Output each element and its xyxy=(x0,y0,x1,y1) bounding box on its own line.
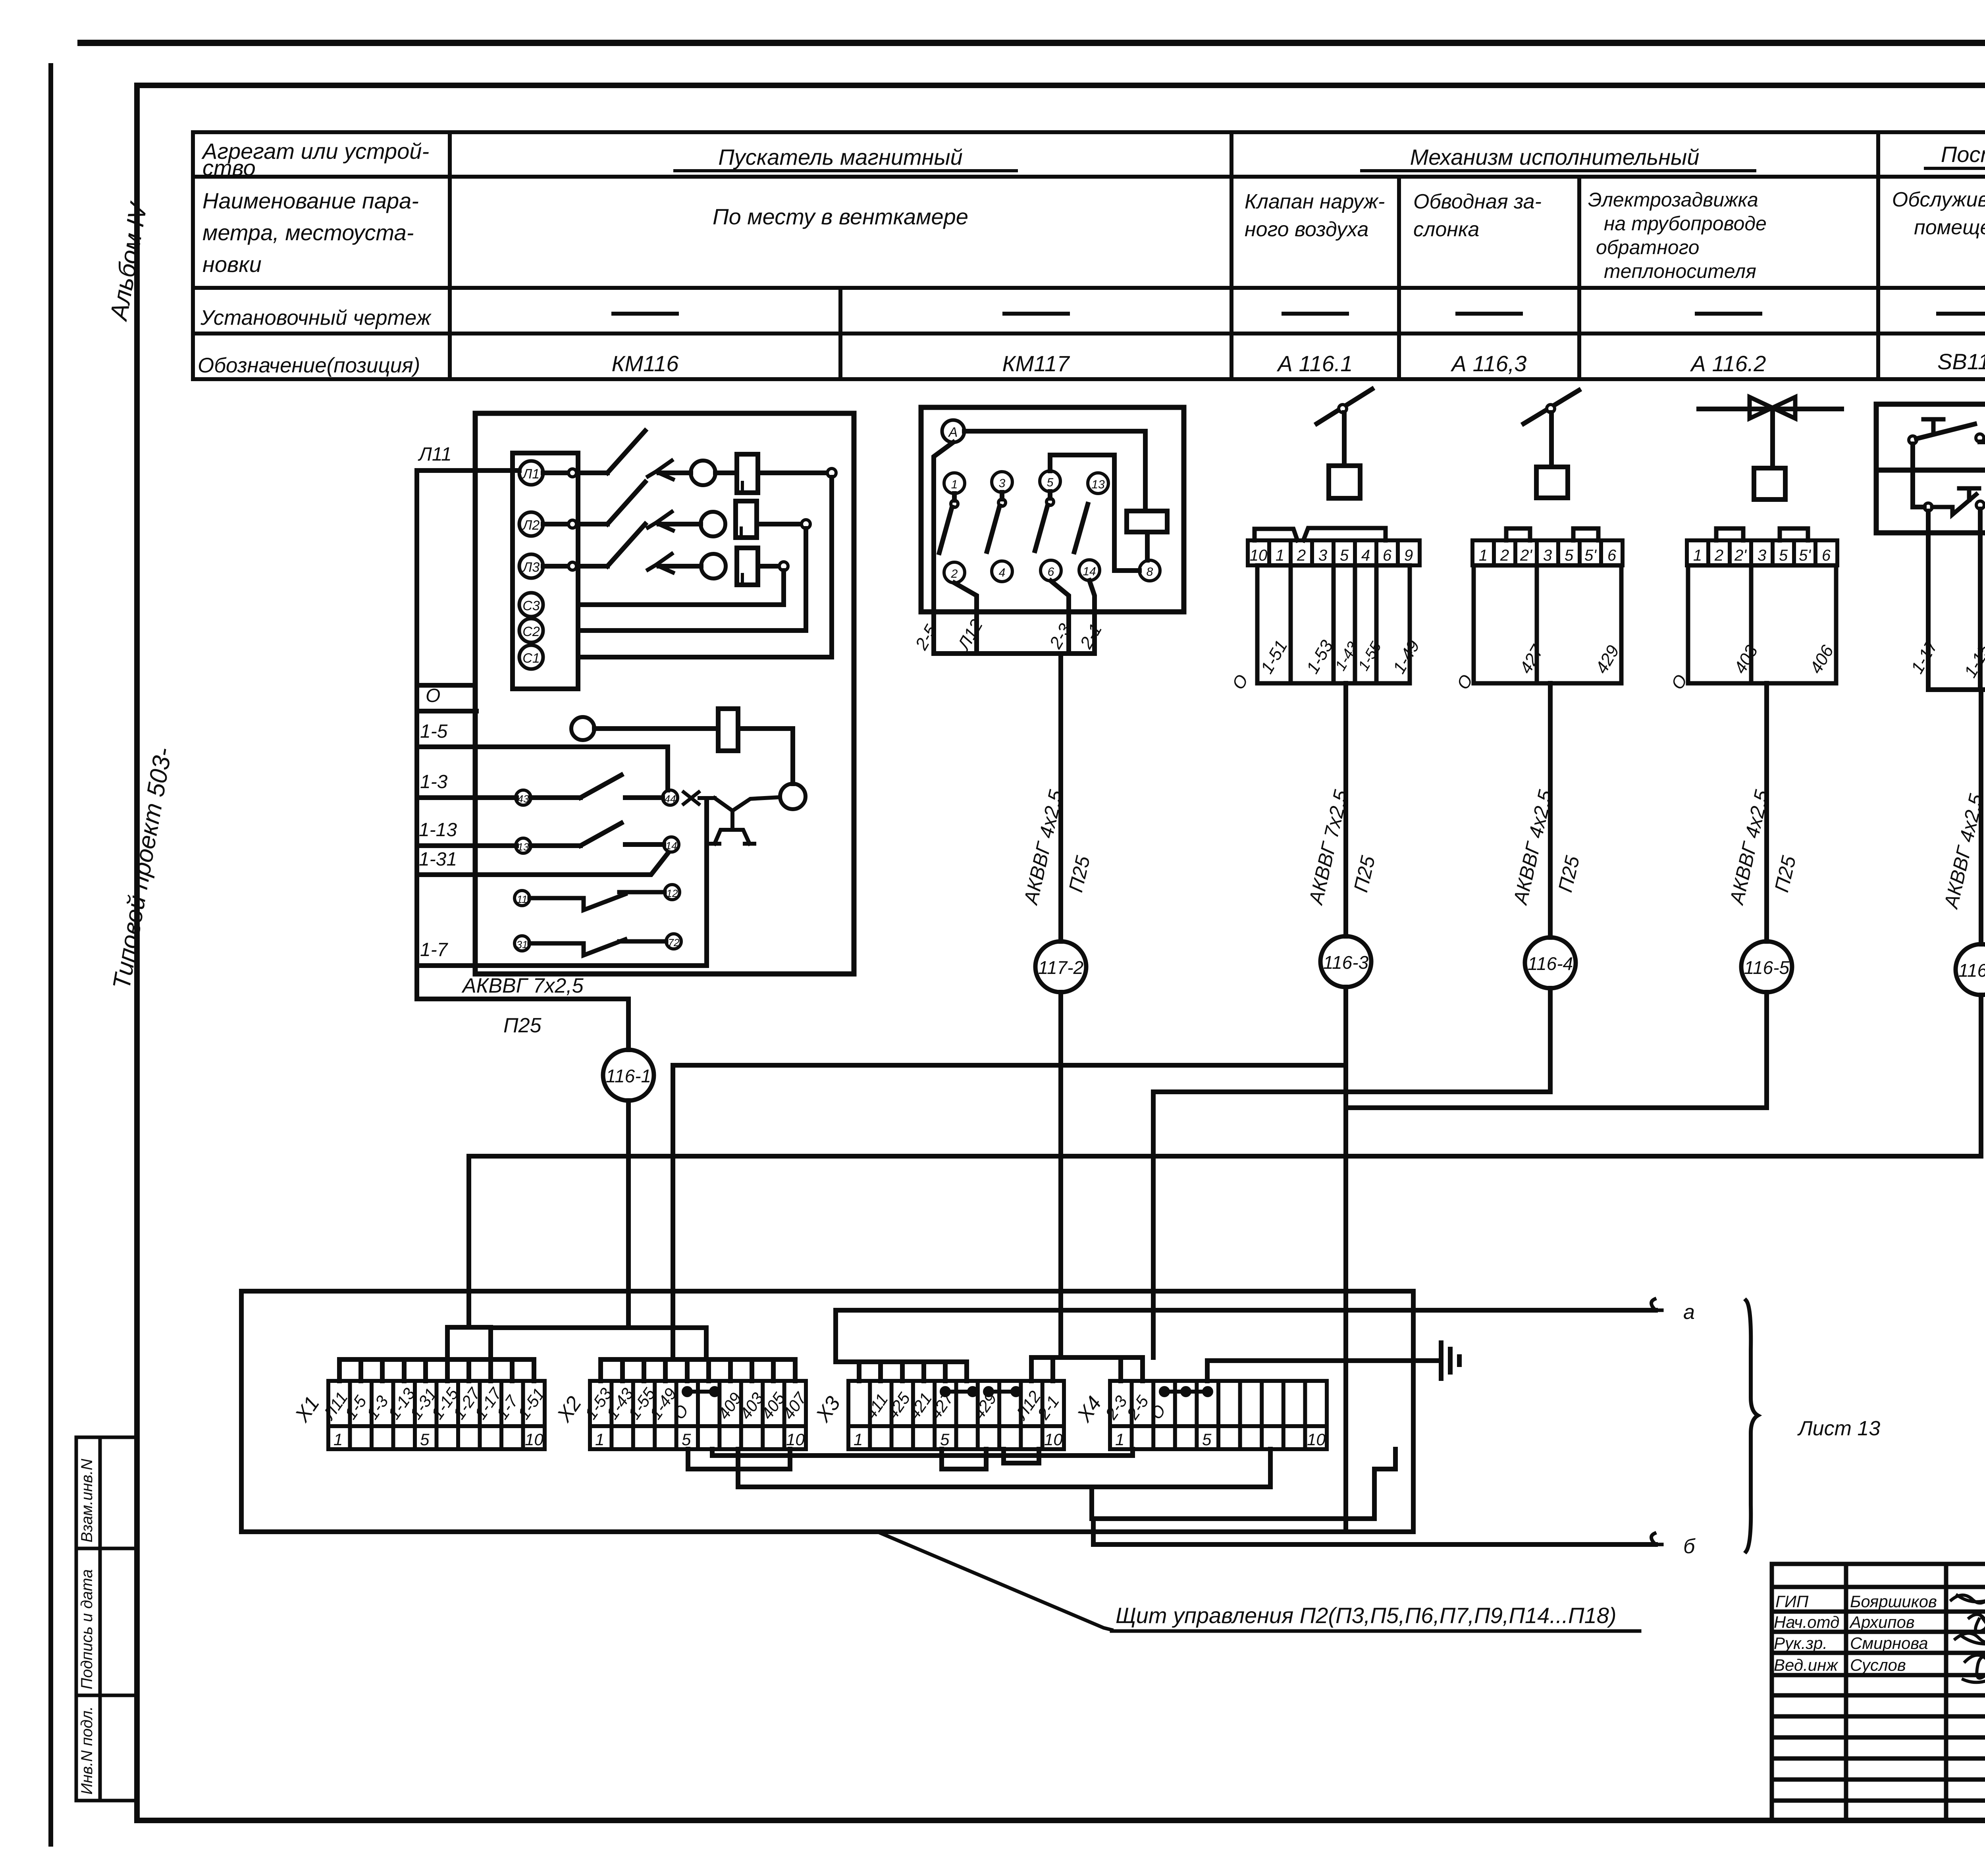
riser 116-1 down xyxy=(626,1101,631,1328)
svg-text:С2: С2 xyxy=(522,624,540,639)
riser 116-4 to bus xyxy=(1153,988,1550,1357)
svg-text:1-13: 1-13 xyxy=(419,819,457,841)
button 1 actuator xyxy=(1923,419,1943,431)
cable mark 117-2 xyxy=(1035,941,1086,992)
pole 3 coil circle xyxy=(701,554,726,578)
terminal 1 xyxy=(944,473,965,494)
svg-text:Наименование пара-: Наименование пара- xyxy=(202,188,419,213)
svg-text:4: 4 xyxy=(999,566,1006,579)
svg-text:С3: С3 xyxy=(522,598,540,613)
signature table xyxy=(1772,1564,1985,1820)
device table frame xyxy=(193,132,1985,379)
svg-text:3: 3 xyxy=(1543,547,1552,564)
svg-text:1-7: 1-7 xyxy=(420,939,449,960)
row3 dashes xyxy=(613,312,1985,316)
svg-text:14: 14 xyxy=(1083,565,1096,578)
left margin stamp: Inv.N podl box xyxy=(76,1695,137,1801)
svg-text:на трубопроводе: на трубопроводе xyxy=(1604,212,1767,235)
svg-text:6: 6 xyxy=(1048,565,1054,578)
A116.1 cable crimp brackets xyxy=(1255,528,1386,540)
svg-text:Электрозадвижка: Электрозадвижка xyxy=(1588,189,1758,211)
under-strip link X3 a xyxy=(942,1449,986,1469)
label cell divider xyxy=(417,683,475,688)
svg-text:1: 1 xyxy=(1276,547,1284,564)
svg-text:3: 3 xyxy=(1758,547,1766,564)
svg-text:14: 14 xyxy=(666,840,677,852)
A116.2 body box xyxy=(1688,565,1836,683)
riser 116-3 xyxy=(1343,683,1348,936)
svg-text:1: 1 xyxy=(951,478,958,491)
sheet top border line xyxy=(81,40,1985,46)
svg-text:6: 6 xyxy=(1822,547,1831,564)
KM116 wire-label column line xyxy=(414,470,419,966)
svg-text:5: 5 xyxy=(682,1430,691,1449)
terminal C1 xyxy=(519,645,543,669)
pole 3 fixed contact xyxy=(648,554,673,573)
svg-text:Л1: Л1 xyxy=(522,467,540,482)
wire 1-5 xyxy=(417,747,668,790)
svg-text:А 116,3: А 116,3 xyxy=(1451,351,1527,376)
valve A116.2 stem xyxy=(1770,409,1775,468)
svg-text:КМ116: КМ116 xyxy=(612,351,679,376)
svg-text:12: 12 xyxy=(667,887,678,899)
svg-text:72: 72 xyxy=(668,937,680,949)
cable mark 116-1 xyxy=(603,1050,654,1101)
riser 116-3 down xyxy=(1343,987,1348,1531)
KM117 coil xyxy=(1127,511,1167,532)
A116.2 terminal numbers row xyxy=(1687,540,1837,565)
wire 1-15 xyxy=(1978,509,1983,690)
cable mark 116-5 xyxy=(1741,941,1792,992)
KM116 coil xyxy=(718,709,738,751)
svg-text:помещение: помещение xyxy=(1914,216,1985,239)
signature scribbles xyxy=(1951,1595,1985,1603)
contact 5-6 blade xyxy=(1046,498,1054,505)
damper A116.3 stem xyxy=(1549,413,1554,467)
contact point 14 xyxy=(664,837,679,852)
x junction mark xyxy=(684,792,699,804)
row4 designations xyxy=(612,349,1985,376)
svg-text:А: А xyxy=(948,425,958,440)
riser 116-5 xyxy=(1764,683,1769,941)
under-strip link X2c5 to X2c10 xyxy=(688,1449,790,1469)
wire button1 left down xyxy=(1913,444,1924,507)
KM117 landing stubs xyxy=(1031,1357,1143,1381)
svg-text:5: 5 xyxy=(1047,476,1054,489)
svg-text:116-5: 116-5 xyxy=(1744,957,1790,978)
svg-text:2: 2 xyxy=(1297,547,1306,564)
svg-text:1: 1 xyxy=(1115,1430,1124,1449)
control cabinet outline xyxy=(241,1291,1413,1532)
terminal 4 xyxy=(992,561,1012,582)
wire pole2 to C2 xyxy=(578,528,806,630)
pole 2 output terminal xyxy=(802,520,810,528)
cable from KM116 xyxy=(417,966,628,1050)
actuator A116.1 xyxy=(1329,466,1360,498)
terminal C3 xyxy=(519,593,543,617)
svg-text:По месту в венткамере: По месту в венткамере xyxy=(713,204,968,229)
svg-text:Архипов: Архипов xyxy=(1849,1613,1915,1631)
terminal L3 xyxy=(519,554,543,578)
svg-text:1-5: 1-5 xyxy=(420,721,448,742)
wire 1-7 bottom rail xyxy=(417,963,707,968)
terminal 2 xyxy=(944,562,965,583)
svg-text:13: 13 xyxy=(1091,478,1105,491)
KM117 cable rail xyxy=(934,651,1095,656)
pole 1 output terminal xyxy=(827,469,836,477)
svg-text:1-31: 1-31 xyxy=(419,849,457,870)
svg-text:11: 11 xyxy=(517,893,528,905)
line a arrow xyxy=(1651,1299,1662,1310)
svg-text:10: 10 xyxy=(1250,547,1268,564)
A116.1 terminal numbers row xyxy=(1248,540,1420,565)
riser 116-4 xyxy=(1548,683,1553,937)
ground symbol xyxy=(1441,1343,1459,1379)
bridge wire 5 to 14 xyxy=(1050,455,1139,571)
terminal 13 xyxy=(1088,473,1108,494)
wire pole1 to C1 xyxy=(578,477,832,657)
aux contact 12 xyxy=(665,885,680,900)
line b arrow xyxy=(1651,1533,1662,1544)
svg-text:SВ116: SВ116 xyxy=(1937,349,1985,374)
outer left border line xyxy=(48,66,53,1844)
svg-text:Подпись и дата: Подпись и дата xyxy=(78,1569,96,1689)
wire 1-31 xyxy=(417,853,668,875)
signature names xyxy=(1774,1592,1937,1674)
under-strip link X3 b xyxy=(1004,1449,1039,1463)
terminal block X4 xyxy=(1110,1381,1327,1449)
contact point 43 xyxy=(516,790,531,805)
riser 116-6 to bus xyxy=(469,995,1981,1327)
aux contact 31-72 link xyxy=(530,939,666,955)
svg-text:1: 1 xyxy=(1479,547,1488,564)
thermal release symbol xyxy=(700,797,779,844)
terminal 14 xyxy=(1079,560,1100,580)
X1 cell labels xyxy=(319,1384,548,1449)
svg-text:Установочный чертеж: Установочный чертеж xyxy=(200,306,432,330)
contact point 13 xyxy=(516,838,531,853)
contact 13-14 blade xyxy=(1074,504,1088,552)
terminal L2 xyxy=(519,512,543,536)
svg-text:Рук.зр.: Рук.зр. xyxy=(1774,1634,1827,1652)
svg-text:9: 9 xyxy=(1404,547,1413,564)
brace to sheet 13 xyxy=(1746,1300,1758,1552)
svg-text:Суслов: Суслов xyxy=(1850,1656,1906,1674)
svg-text:Пост: Пост xyxy=(1941,142,1985,167)
svg-text:Л11: Л11 xyxy=(418,444,452,465)
svg-text:Щит управления П2(П3,П5,П6,П7: Щит управления П2(П3,П5,П6,П7,П9,П14...П… xyxy=(1116,1603,1617,1628)
callout leader line xyxy=(877,1532,1112,1630)
svg-text:2': 2' xyxy=(1734,547,1747,564)
terminal 3 xyxy=(992,472,1012,492)
actuator A116.2 xyxy=(1754,468,1785,499)
svg-text:ство: ство xyxy=(202,155,256,180)
svg-text:116-6: 116-6 xyxy=(1958,960,1985,981)
svg-text:Бояршиков: Бояршиков xyxy=(1850,1592,1937,1611)
contact 3-4 blade xyxy=(998,499,1006,506)
wire 1-3 xyxy=(417,795,516,800)
A116.3 body box xyxy=(1474,565,1621,683)
valve symbol A116.2 pipe line xyxy=(1699,407,1842,411)
svg-text:44: 44 xyxy=(665,793,676,805)
svg-text:Инв.N подл.: Инв.N подл. xyxy=(78,1706,96,1795)
svg-text:Л3: Л3 xyxy=(522,560,540,575)
KM116 aux lamp xyxy=(780,784,806,809)
svg-text:8: 8 xyxy=(1147,565,1153,578)
svg-text:Вед.инж: Вед.инж xyxy=(1774,1656,1839,1674)
X4 cell labels xyxy=(1101,1392,1326,1449)
ground feed wire xyxy=(1207,1361,1440,1381)
KM117 landing collector xyxy=(1031,1355,1143,1360)
X1 stubs xyxy=(339,1359,534,1381)
svg-text:КМ117: КМ117 xyxy=(1002,351,1070,376)
svg-text:5: 5 xyxy=(1340,547,1349,564)
button 2 contact xyxy=(1924,503,1932,511)
contact 13-14 blade xyxy=(580,823,621,846)
riser 116-5 to bus xyxy=(1346,992,1767,1108)
A116.3 terminal numbers row xyxy=(1472,540,1623,565)
svg-text:5: 5 xyxy=(1779,547,1788,564)
svg-text:5: 5 xyxy=(1565,547,1574,564)
wire coil to terminal 8 xyxy=(1145,532,1150,560)
X2 jumper bar xyxy=(684,1388,718,1395)
svg-text:116-4: 116-4 xyxy=(1528,953,1573,974)
under-strip link X2c6 to X4c1 xyxy=(712,1449,1133,1456)
svg-text:13: 13 xyxy=(518,841,529,853)
svg-text:А 116.2: А 116.2 xyxy=(1690,351,1766,376)
svg-text:5: 5 xyxy=(940,1430,950,1449)
X2 collector bus xyxy=(601,1357,795,1362)
svg-text:1-3: 1-3 xyxy=(420,771,448,792)
svg-text:обратного: обратного xyxy=(1596,236,1699,258)
table texts xyxy=(198,139,1985,377)
breaker pole 1 blade xyxy=(607,431,645,473)
X2 stubs xyxy=(601,1359,795,1381)
damper symbol A116.1 xyxy=(1317,389,1372,424)
svg-text:Л2: Л2 xyxy=(522,518,540,533)
wire a to X3 collector xyxy=(833,1310,838,1362)
svg-text:1: 1 xyxy=(854,1430,863,1449)
phase row 2: wire from L2 xyxy=(543,522,607,526)
A116.3 cable crimp brackets xyxy=(1506,528,1598,540)
button 1 contact xyxy=(1909,436,1917,444)
svg-text:Клапан наруж-: Клапан наруж- xyxy=(1245,190,1385,213)
exit wire 2-3 xyxy=(1051,581,1069,654)
svg-text:2: 2 xyxy=(951,567,958,580)
svg-text:О: О xyxy=(426,685,440,706)
terminal block X1 xyxy=(328,1381,545,1449)
pole 3 heater element xyxy=(737,548,758,585)
svg-text:4: 4 xyxy=(1361,547,1370,564)
damper A116.1 stem xyxy=(1342,413,1347,466)
svg-text:А 116.1: А 116.1 xyxy=(1277,351,1353,376)
svg-text:1: 1 xyxy=(595,1430,604,1449)
bus into X2 collector xyxy=(491,1328,706,1359)
phase row 3: wire from L3 xyxy=(543,564,607,569)
SB116 divider xyxy=(1876,468,1985,473)
svg-text:АКВВГ 7х2,5: АКВВГ 7х2,5 xyxy=(461,974,584,997)
svg-text:метра, местоуста-: метра, местоуста- xyxy=(202,220,414,245)
terminal block X2 xyxy=(590,1381,806,1449)
KM116 terminal strip box xyxy=(513,453,578,689)
svg-text:10: 10 xyxy=(786,1430,805,1449)
riser 117-2 xyxy=(1058,654,1063,941)
svg-text:31: 31 xyxy=(516,939,528,951)
svg-text:1: 1 xyxy=(1693,547,1702,564)
pole 1 fixed contact xyxy=(648,461,673,479)
starter KM117 enclosure xyxy=(921,407,1184,612)
pole 3 output terminal xyxy=(779,562,788,571)
phase row 1: wire from L1 xyxy=(543,470,607,475)
aux contact 72 xyxy=(666,934,681,949)
X3 stubs xyxy=(859,1362,967,1381)
wire 1-17 xyxy=(1926,511,1931,690)
SB116 cable rail xyxy=(1928,687,1985,692)
terminal A xyxy=(942,420,964,442)
svg-text:1: 1 xyxy=(333,1430,343,1449)
X3 cell labels xyxy=(854,1387,1063,1449)
actuator A116.3 xyxy=(1536,467,1568,498)
svg-text:Смирнова: Смирнова xyxy=(1850,1634,1928,1652)
wire 1-27 xyxy=(1980,442,1985,690)
X1 upper bar to cells 6-8 xyxy=(447,1327,491,1381)
svg-text:43: 43 xyxy=(518,793,529,805)
X3 jumper bars xyxy=(942,1388,1019,1395)
svg-text:теплоносителя: теплоносителя xyxy=(1604,260,1756,282)
svg-text:Взам.инв.N: Взам.инв.N xyxy=(78,1459,96,1542)
A116.1 body box xyxy=(1257,565,1410,683)
left margin stamp: Podpis i data box xyxy=(76,1548,137,1695)
aux contact 31 xyxy=(515,936,530,951)
contact point 44 xyxy=(663,790,678,805)
svg-text:Нач.отд: Нач.отд xyxy=(1774,1613,1839,1631)
KM116 inner panel right edge xyxy=(704,801,709,966)
aux contact 11 xyxy=(515,891,530,906)
pole 1 coil circle xyxy=(691,461,715,485)
svg-text:б: б xyxy=(1683,1535,1696,1558)
wire A down to exit xyxy=(934,442,953,654)
cable mark 116-4 xyxy=(1525,937,1576,988)
under-strip bus 1 xyxy=(738,1449,1270,1487)
svg-text:Обслуживаемое: Обслуживаемое xyxy=(1892,188,1985,211)
valve A116.2 bowtie xyxy=(1750,397,1795,418)
A116.2 cable crimp brackets xyxy=(1716,528,1808,540)
X2 cell labels xyxy=(581,1384,811,1449)
X1 collector bus xyxy=(339,1357,534,1362)
pole 2 fixed contact xyxy=(648,512,673,530)
pole 2 coil circle xyxy=(701,512,725,536)
svg-text:2: 2 xyxy=(1500,547,1509,564)
svg-text:П25: П25 xyxy=(503,1014,542,1037)
svg-text:116-1: 116-1 xyxy=(606,1066,651,1086)
svg-text:10: 10 xyxy=(1044,1430,1063,1449)
wire pole3 to C3 xyxy=(578,571,784,605)
terminal block X3 xyxy=(848,1381,1064,1449)
svg-text:5': 5' xyxy=(1799,547,1811,564)
svg-text:10: 10 xyxy=(525,1430,543,1449)
svg-text:117-2: 117-2 xyxy=(1038,957,1083,978)
cable mark 116-3 xyxy=(1320,936,1371,987)
KM116 lamp xyxy=(571,717,594,740)
push-button post SB116 box xyxy=(1876,404,1985,533)
svg-text:ного воздуха: ного воздуха xyxy=(1245,218,1368,241)
svg-text:3: 3 xyxy=(1318,547,1327,564)
svg-text:ГИП: ГИП xyxy=(1775,1592,1809,1611)
svg-text:Обозначение(позиция): Обозначение(позиция) xyxy=(198,354,420,377)
X4 jumper bar xyxy=(1161,1388,1211,1395)
exit wire 2-1 xyxy=(1089,580,1095,654)
exit wire L12 xyxy=(954,583,977,654)
terminal 8 xyxy=(1139,560,1160,581)
line b feed xyxy=(1091,1519,1096,1544)
wire lamp to coil xyxy=(594,726,718,731)
svg-text:новки: новки xyxy=(202,252,262,277)
button 2 actuator xyxy=(1959,488,1979,500)
wire A to coil xyxy=(964,431,1145,511)
svg-text:6: 6 xyxy=(1607,547,1617,564)
svg-text:2': 2' xyxy=(1520,547,1532,564)
svg-text:а: а xyxy=(1683,1301,1695,1324)
terminal 6 xyxy=(1041,560,1061,581)
riser 117-2 down xyxy=(1058,992,1063,1357)
svg-text:С1: С1 xyxy=(522,651,540,666)
pole 1 heater element xyxy=(737,454,758,493)
contact 43-44 blade xyxy=(580,775,621,798)
cable mark 116-6 xyxy=(1956,944,1985,995)
svg-text:3: 3 xyxy=(999,477,1006,490)
line b xyxy=(1093,1542,1655,1547)
breaker pole 2 blade xyxy=(607,482,645,524)
svg-text:5': 5' xyxy=(1584,547,1597,564)
svg-text:5: 5 xyxy=(1202,1430,1212,1449)
svg-text:слонка: слонка xyxy=(1413,218,1479,241)
bus 116-3 to X2 xyxy=(673,1065,1346,1359)
X3 collector bus xyxy=(836,1359,967,1364)
svg-text:Пускатель магнитный: Пускатель магнитный xyxy=(718,145,963,170)
wire coil to aux circle xyxy=(738,729,793,784)
svg-text:6: 6 xyxy=(1383,547,1392,564)
left margin stamp: Vzam.inv.N box xyxy=(76,1437,137,1548)
svg-text:Обводная за-: Обводная за- xyxy=(1413,190,1542,213)
terminal C2 xyxy=(519,619,543,642)
svg-text:116-3: 116-3 xyxy=(1323,952,1369,973)
line a xyxy=(836,1308,1655,1313)
aux contact 11-12 link xyxy=(530,892,665,910)
svg-text:Лист 13: Лист 13 xyxy=(1797,1417,1880,1440)
terminal L1 xyxy=(519,461,543,485)
drop to bus 2 xyxy=(1089,1487,1094,1519)
svg-text:5: 5 xyxy=(420,1430,430,1449)
breaker pole 3 blade xyxy=(607,524,645,566)
svg-text:Механизм исполнительный: Механизм исполнительный xyxy=(1410,145,1700,170)
terminal 5 xyxy=(1040,471,1060,492)
svg-text:2: 2 xyxy=(1714,547,1723,564)
contact 1-2 blade xyxy=(951,500,958,507)
starter KM116 enclosure xyxy=(475,413,854,974)
pole 2 heater element xyxy=(736,501,757,538)
wire 1-13 xyxy=(417,843,516,848)
wire L11 xyxy=(417,468,519,473)
riser 116-6 xyxy=(1979,690,1983,944)
wire O stub xyxy=(417,709,476,713)
damper symbol A116.3 xyxy=(1524,390,1579,424)
under-strip bus 2 xyxy=(1093,1449,1395,1519)
svg-text:10: 10 xyxy=(1307,1430,1326,1449)
